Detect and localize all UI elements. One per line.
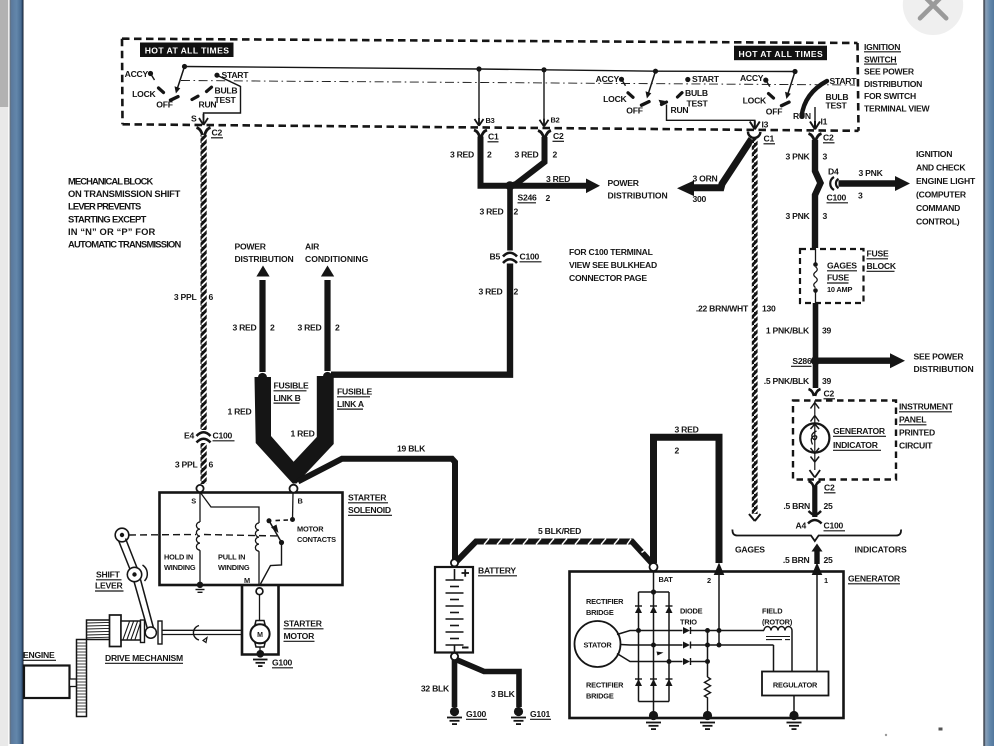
generator indicator lamp: [814, 401, 816, 471]
svg-text:ACCY: ACCY: [740, 73, 764, 83]
svg-text:MOTOR: MOTOR: [284, 631, 316, 641]
small artifact mark: [657, 652, 664, 656]
svg-text:DISTRIBUTION: DISTRIBUTION: [914, 364, 974, 374]
svg-text:C100: C100: [824, 521, 844, 531]
LEFT COLUMN: [68, 128, 235, 485]
gages/indicators brace: [732, 530, 901, 542]
svg-text:19 BLK: 19 BLK: [397, 444, 426, 454]
svg-text:LOCK: LOCK: [603, 94, 627, 104]
connector C2 flare into instrument panel: [809, 389, 821, 396]
svg-text:LEVER: LEVER: [95, 581, 123, 591]
svg-text:HOT AT ALL TIMES: HOT AT ALL TIMES: [145, 46, 230, 56]
plus sign: [462, 569, 470, 576]
regulator box: [762, 672, 829, 696]
svg-text:ON TRANSMISSION SHIFT: ON TRANSMISSION SHIFT: [68, 188, 181, 199]
svg-text:3 RED: 3 RED: [479, 207, 503, 217]
scrollbar thumb: [0, 0, 8, 107]
wire 3 RED from B2: [511, 137, 545, 186]
wire 3 RED below S246: [507, 188, 513, 251]
svg-text:WINDING: WINDING: [164, 563, 196, 572]
instrument panel printed circuit note: [899, 402, 954, 451]
svg-text:TRIO: TRIO: [680, 618, 697, 627]
RIGHT COLUMN: [696, 132, 976, 566]
svg-text:BRIDGE: BRIDGE: [586, 608, 614, 617]
close button: [903, 0, 963, 35]
connector C2 flare (ignition S wire): [197, 128, 211, 136]
terminal B2 drop wire: [543, 70, 545, 120]
ignition switch section 3 (START engaged): [740, 69, 857, 121]
svg-text:IGNITION: IGNITION: [916, 149, 952, 159]
svg-text:GAGES: GAGES: [827, 261, 857, 271]
svg-text:2: 2: [707, 576, 711, 585]
splice S286: [811, 356, 820, 365]
mechanical linkage dash-dot line: [181, 81, 855, 86]
pull-in winding: [255, 523, 259, 551]
fusible link B / A tapered V: [255, 376, 334, 484]
svg-text:FOR C100 TERMINAL: FOR C100 TERMINAL: [569, 247, 653, 257]
svg-text:B5: B5: [490, 252, 501, 262]
IGNITION SWITCH note text: [864, 42, 930, 114]
svg-text:FIELD: FIELD: [762, 607, 783, 616]
svg-text:FUSE: FUSE: [827, 273, 849, 283]
svg-text:ACCY: ACCY: [596, 74, 620, 84]
engaged thick wiper arc to START: [802, 81, 828, 117]
connector E4 C100: [198, 430, 209, 440]
connector C1 flare (B3): [474, 130, 487, 138]
terminal B: [290, 485, 298, 493]
shift lever: [115, 528, 129, 542]
svg-text:25: 25: [824, 555, 834, 565]
instrument panel dashed box: [793, 401, 896, 480]
svg-text:MECHANICAL BLOCK: MECHANICAL BLOCK: [68, 176, 154, 187]
svg-text:G101: G101: [530, 709, 550, 719]
hold-in winding: [199, 492, 201, 522]
svg-text:C100: C100: [520, 252, 540, 262]
svg-text:I3: I3: [762, 120, 769, 130]
arrow to see power distribution: [819, 358, 891, 364]
ignition switch dashed enclosure: [122, 39, 859, 131]
wire .5 BRN upper: [809, 481, 821, 488]
svg-text:(ROTOR): (ROTOR): [762, 618, 793, 627]
motor contacts: [292, 493, 295, 520]
ground G100: [450, 707, 459, 716]
svg-text:HOT AT ALL TIMES: HOT AT ALL TIMES: [739, 49, 824, 59]
svg-text:CONNECTOR PAGE: CONNECTOR PAGE: [569, 273, 647, 283]
svg-text:BAT: BAT: [659, 575, 674, 584]
rectifier diodes bottom: [635, 679, 673, 686]
svg-text:C2: C2: [553, 131, 564, 141]
svg-text:C2: C2: [212, 128, 223, 138]
svg-text:START: START: [222, 70, 250, 80]
svg-text:START: START: [830, 76, 858, 86]
svg-text:.22 BRN/WHT: .22 BRN/WHT: [696, 304, 749, 314]
svg-text:2: 2: [675, 446, 680, 456]
wire to I1 terminal: [814, 107, 816, 122]
terminal M: [256, 588, 263, 595]
svg-text:CONTACTS: CONTACTS: [297, 535, 336, 544]
svg-text:2: 2: [546, 193, 551, 203]
ground G100 at starter motor: [257, 650, 265, 658]
ignition and check engine light note: [916, 149, 976, 227]
svg-text:LOCK: LOCK: [132, 89, 156, 99]
wire 3 RED from B3: [481, 137, 508, 186]
svg-text:C100: C100: [827, 193, 847, 203]
wire from RUN to I3 terminal: [667, 105, 755, 123]
svg-text:LEVER PREVENTS: LEVER PREVENTS: [68, 201, 141, 212]
svg-text:LOCK: LOCK: [743, 95, 767, 105]
svg-text:OFF: OFF: [626, 106, 642, 116]
connector C1 flare (I3): [748, 132, 760, 138]
svg-text:RECTIFIER: RECTIFIER: [586, 597, 624, 606]
svg-text:M: M: [244, 576, 250, 585]
svg-text:130: 130: [762, 304, 776, 314]
svg-text:TERMINAL VIEW: TERMINAL VIEW: [864, 104, 930, 114]
wire 3 ORN arrow to power distribution: [693, 139, 752, 188]
IGNITION SWITCH BOX: [122, 39, 930, 131]
svg-text:1 RED: 1 RED: [227, 407, 251, 417]
field rotor coil: [719, 630, 764, 632]
svg-text:INSTRUMENT: INSTRUMENT: [899, 402, 954, 412]
svg-text:OFF: OFF: [156, 100, 172, 110]
svg-text:TEST: TEST: [687, 98, 709, 108]
svg-text:STARTING EXCEPT: STARTING EXCEPT: [68, 213, 147, 224]
svg-text:GENERATOR: GENERATOR: [833, 426, 886, 436]
svg-text:COMMAND: COMMAND: [916, 203, 960, 213]
svg-text:G100: G100: [466, 709, 486, 719]
svg-text:10 AMP: 10 AMP: [827, 285, 852, 294]
HOT AT ALL TIMES label (right): [734, 46, 827, 61]
svg-text:3 RED: 3 RED: [514, 150, 538, 160]
connector C2 flare (B2): [538, 131, 551, 139]
svg-text:SHIFT: SHIFT: [96, 570, 121, 580]
svg-text:S286: S286: [792, 356, 812, 366]
svg-text:IGNITION: IGNITION: [864, 42, 900, 52]
wire 3 PPL (striped): [201, 135, 207, 430]
svg-text:IN “N” OR “P” FOR: IN “N” OR “P” FOR: [68, 226, 156, 237]
SOLENOID / MOTOR / LEVER: [23, 485, 392, 717]
svg-text:S: S: [191, 497, 196, 506]
left window blue bar: [10, 0, 24, 744]
wire 3 RED to air conditioning: [324, 280, 330, 371]
wire 3 RED down to fusible link A junction: [331, 264, 510, 375]
svg-text:CIRCUIT: CIRCUIT: [899, 441, 933, 451]
terminal I3 arrow: [750, 121, 760, 130]
scan specks: [885, 734, 887, 736]
svg-text:2: 2: [514, 207, 519, 217]
terminal BAT: [650, 563, 658, 571]
svg-text:STARTER: STARTER: [348, 493, 387, 503]
svg-text:3 RED: 3 RED: [297, 323, 321, 333]
svg-text:INDICATOR: INDICATOR: [833, 440, 879, 450]
ignition switch section 2: [596, 69, 720, 116]
svg-text:GENERATOR: GENERATOR: [848, 574, 901, 584]
small ground ticks below solenoid: [196, 590, 205, 593]
svg-text:BULB: BULB: [685, 88, 708, 98]
minus sign: [462, 647, 469, 649]
svg-text:B: B: [298, 497, 303, 506]
svg-text:B2: B2: [551, 116, 560, 125]
svg-text:2: 2: [553, 150, 558, 160]
svg-text:PULL IN: PULL IN: [218, 553, 245, 562]
svg-text:3 RED: 3 RED: [232, 323, 256, 333]
wire from START to S terminal: [204, 75, 241, 118]
svg-text:AUTOMATIC TRANSMISSION: AUTOMATIC TRANSMISSION: [68, 239, 182, 250]
wire 1 PNK/BLK: [813, 303, 819, 357]
svg-text:1: 1: [824, 576, 828, 585]
svg-text:ENGINE: ENGINE: [23, 650, 55, 660]
splice S246: [505, 181, 514, 190]
svg-text:G100: G100: [272, 658, 292, 668]
svg-text:CONDITIONING: CONDITIONING: [305, 254, 369, 264]
svg-text:3 BLK: 3 BLK: [491, 689, 516, 699]
starter motor box: [242, 586, 279, 655]
svg-text:25: 25: [824, 501, 834, 511]
svg-text:PANEL: PANEL: [899, 415, 926, 425]
junction node fusible link A: [323, 372, 332, 381]
svg-text:POWER: POWER: [235, 242, 267, 252]
svg-text:6: 6: [209, 460, 214, 470]
svg-text:CONTROL): CONTROL): [916, 217, 960, 227]
svg-text:ENGINE LIGHT: ENGINE LIGHT: [916, 176, 976, 186]
svg-text:POWER: POWER: [608, 178, 640, 188]
svg-text:3 PPL: 3 PPL: [175, 460, 198, 470]
svg-text:RECTIFIER: RECTIFIER: [586, 681, 624, 690]
wire 3 RED to power distribution: [259, 280, 265, 372]
terminal S: [196, 485, 203, 492]
svg-text:FUSIBLE: FUSIBLE: [274, 381, 310, 391]
svg-text:AIR: AIR: [305, 242, 320, 252]
wire 19 BLK: [298, 459, 455, 560]
svg-text:DISTRIBUTION: DISTRIBUTION: [235, 254, 294, 264]
resistor: [705, 677, 711, 713]
svg-text:STATOR: STATOR: [584, 641, 613, 650]
svg-text:C2: C2: [824, 483, 835, 493]
GENERATOR: [570, 425, 901, 730]
svg-text:MOTOR: MOTOR: [297, 525, 324, 534]
svg-text:GAGES: GAGES: [735, 545, 765, 555]
svg-text:BLOCK: BLOCK: [867, 261, 897, 271]
fuse block dashed box: [800, 249, 864, 303]
svg-text:32 BLK: 32 BLK: [421, 684, 450, 694]
svg-text:HOLD IN: HOLD IN: [164, 553, 193, 562]
svg-text:E4: E4: [184, 431, 194, 441]
svg-text:3 ORN: 3 ORN: [693, 174, 718, 184]
svg-text:C100: C100: [213, 431, 233, 441]
svg-text:(COMPUTER: (COMPUTER: [916, 190, 967, 200]
svg-text:.5 BRN: .5 BRN: [783, 555, 810, 565]
svg-text:START: START: [692, 74, 720, 84]
svg-text:STARTER: STARTER: [284, 619, 323, 629]
svg-text:C1: C1: [764, 134, 775, 144]
svg-text:SEE POWER: SEE POWER: [914, 352, 965, 362]
svg-text:C2: C2: [823, 133, 834, 143]
svg-text:D4: D4: [828, 167, 839, 177]
junction node fusible link B: [258, 373, 267, 382]
svg-text:2: 2: [487, 150, 492, 160]
diode trio collector line: [707, 631, 709, 678]
svg-text:3 PNK: 3 PNK: [785, 152, 810, 162]
wire 3 PNK from I1: [815, 140, 821, 248]
terminal S arrow: [199, 114, 208, 125]
gages fuse: [815, 249, 817, 263]
svg-text:AND CHECK: AND CHECK: [916, 163, 966, 173]
svg-text:.5 PNK/BLK: .5 PNK/BLK: [764, 376, 810, 386]
ignition switch section 1 (ACCY/LOCK/OFF/RUN/BULB TEST/START): [125, 64, 250, 110]
svg-text:39: 39: [822, 376, 832, 386]
connector C2 flare (I1): [809, 134, 822, 142]
regulator wires: [773, 645, 775, 672]
svg-text:REGULATOR: REGULATOR: [773, 681, 818, 690]
battery + terminal circle: [451, 559, 458, 566]
svg-text:2: 2: [514, 287, 519, 297]
wire 3 BLK: [456, 660, 519, 708]
battery - terminal circle: [451, 653, 458, 660]
wire 5 BLK/RED (striped): [457, 542, 654, 565]
svg-text:FOR SWITCH: FOR SWITCH: [864, 91, 916, 101]
svg-text:2: 2: [335, 323, 340, 333]
arrow end of BRN/WHT wire: [749, 514, 761, 521]
svg-text:BATTERY: BATTERY: [478, 566, 516, 576]
wire 32 BLK: [452, 660, 458, 707]
svg-text:1 PNK/BLK: 1 PNK/BLK: [766, 326, 810, 336]
wire 3 PNK arrow to ignition light: [839, 180, 897, 186]
svg-text:3: 3: [823, 211, 828, 221]
wire 3 RED inverted U to generator: [654, 437, 720, 563]
svg-text:3: 3: [858, 191, 863, 201]
terminal B3 drop wire: [478, 69, 480, 119]
connector B5 C100: [505, 251, 516, 261]
terminal 2 internal wire: [718, 575, 720, 645]
generator internal grounds: [649, 711, 658, 720]
wire .5 BRN lower: [812, 544, 823, 552]
svg-text:DRIVE MECHANISM: DRIVE MECHANISM: [105, 653, 183, 663]
svg-text:SOLENOID: SOLENOID: [348, 505, 391, 515]
terminal 1 arrow: [812, 563, 823, 576]
svg-text:3: 3: [823, 152, 828, 162]
terminal 2 arrow: [714, 563, 725, 576]
svg-text:ACCY: ACCY: [125, 69, 149, 79]
svg-text:FUSE: FUSE: [867, 249, 889, 259]
terminal I1 arrow: [810, 121, 820, 129]
note FOR C100 TERMINAL VIEW: [569, 247, 657, 283]
svg-text:BRIDGE: BRIDGE: [586, 692, 614, 701]
svg-text:C2: C2: [824, 389, 835, 399]
svg-text:INDICATORS: INDICATORS: [855, 545, 908, 555]
BATTERY: [421, 526, 653, 724]
svg-text:FUSIBLE: FUSIBLE: [337, 387, 373, 397]
svg-text:3 RED: 3 RED: [675, 425, 699, 435]
mechanical block note text: [68, 176, 182, 250]
svg-text:39: 39: [822, 326, 832, 336]
svg-text:5 BLK/RED: 5 BLK/RED: [538, 526, 581, 536]
battery box: [435, 567, 473, 653]
wire 3 PPL lower (striped): [201, 443, 207, 484]
wire .5 PNK/BLK: [813, 364, 819, 388]
svg-text:TEST: TEST: [826, 101, 848, 111]
diode D4 connector arcs: [830, 177, 838, 190]
rectifier bridge: [639, 571, 670, 713]
svg-text:3 RED: 3 RED: [450, 150, 474, 160]
svg-text:DISTRIBUTION: DISTRIBUTION: [864, 79, 922, 89]
right window blue bar: [983, 0, 994, 746]
svg-text:VIEW SEE BULKHEAD: VIEW SEE BULKHEAD: [569, 260, 657, 270]
svg-text:3 PNK: 3 PNK: [859, 168, 884, 178]
svg-text:3 PPL: 3 PPL: [174, 292, 197, 302]
svg-text:3 PNK: 3 PNK: [785, 211, 810, 221]
svg-text:SEE POWER: SEE POWER: [864, 67, 915, 77]
svg-text:C1: C1: [488, 132, 499, 142]
svg-text:TEST: TEST: [215, 95, 237, 105]
svg-text:6: 6: [209, 292, 214, 302]
svg-text:B3: B3: [486, 116, 495, 125]
starter motor M symbol: [259, 595, 261, 620]
svg-text:.5 BRN: .5 BRN: [783, 501, 810, 511]
svg-text:300: 300: [693, 194, 707, 204]
starter solenoid box: [160, 493, 343, 586]
svg-text:I1: I1: [821, 117, 828, 127]
drive mechanism: [87, 615, 243, 647]
svg-text:LINK A: LINK A: [337, 399, 364, 409]
wire .22 BRN/WHT (striped): [752, 139, 758, 514]
svg-text:S246: S246: [518, 193, 538, 203]
FUSIBLE LINKS: [227, 242, 455, 561]
svg-text:DIODE: DIODE: [680, 607, 703, 616]
generator box: [570, 572, 844, 719]
top bus wire: [185, 67, 796, 72]
scrollbar track: [0, 0, 8, 746]
svg-text:3 RED: 3 RED: [478, 287, 502, 297]
MIDDLE WIRES: [331, 130, 752, 375]
diode trio: [683, 627, 691, 665]
svg-text:OFF: OFF: [766, 106, 782, 116]
stator phase wires: [617, 631, 774, 662]
svg-text:DISTRIBUTION: DISTRIBUTION: [608, 190, 668, 200]
stator: [575, 621, 621, 667]
svg-text:SWITCH: SWITCH: [864, 54, 896, 64]
ground G101: [514, 707, 523, 716]
svg-text:1 RED: 1 RED: [291, 429, 315, 439]
rectifier diodes top: [635, 606, 673, 613]
svg-text:S: S: [191, 114, 197, 124]
battery cells: [446, 569, 464, 652]
svg-text:WINDING: WINDING: [218, 563, 250, 572]
svg-text:2: 2: [270, 323, 275, 333]
svg-text:PRINTED: PRINTED: [899, 428, 935, 438]
wire 3 RED arrow to power distribution: [513, 183, 587, 189]
HOT AT ALL TIMES label (left): [140, 43, 234, 58]
svg-text:LINK B: LINK B: [274, 393, 301, 403]
gear rack: [77, 640, 87, 717]
wire S to pull-in winding: [200, 492, 259, 523]
svg-text:3 RED: 3 RED: [546, 174, 570, 184]
svg-text:M: M: [257, 632, 263, 639]
svg-text:A4: A4: [796, 521, 807, 531]
connector A4 C100: [808, 511, 822, 524]
